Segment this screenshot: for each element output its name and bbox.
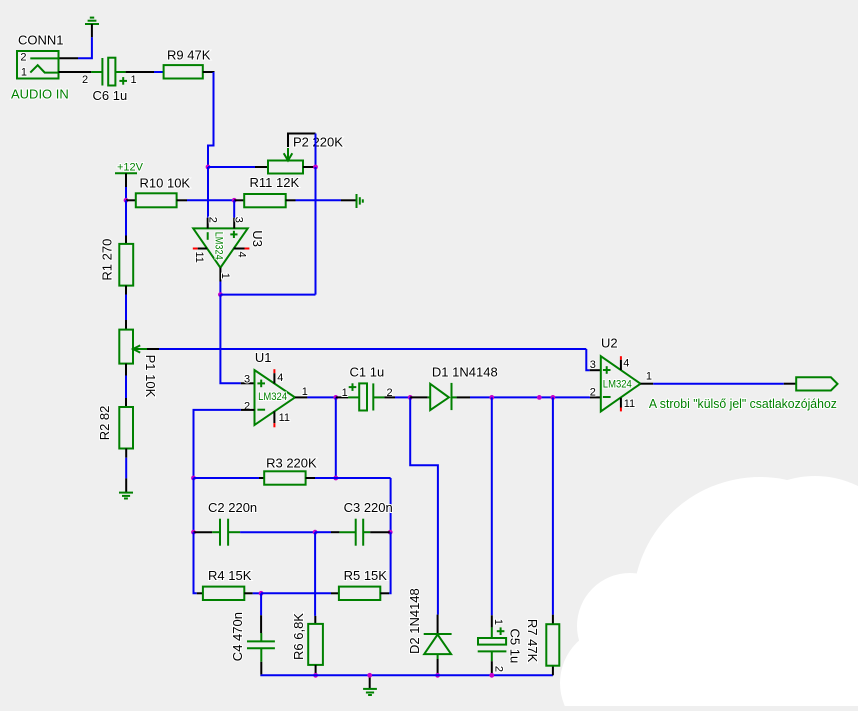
svg-text:R10 10K: R10 10K [140,176,191,191]
svg-text:U3: U3 [250,230,265,247]
svg-text:1: 1 [131,74,137,86]
svg-text:P2 220K: P2 220K [293,135,343,150]
svg-text:C4 470n: C4 470n [230,612,245,661]
node junction [333,476,338,481]
wire [125,187,127,200]
svg-text:2: 2 [82,74,88,86]
svg-text:C1 1u: C1 1u [350,365,385,380]
op-amp U3 [193,228,248,267]
svg-text:+12V: +12V [117,161,144,173]
wire [389,532,390,593]
node junction [551,395,556,400]
node junction [124,198,129,203]
wire [233,200,235,217]
port (external strobe output) [796,377,837,390]
wire [208,166,255,168]
svg-text:2: 2 [20,52,26,64]
svg-text:LM324: LM324 [258,391,287,403]
svg-text:1: 1 [342,387,348,399]
svg-text:2: 2 [493,666,505,672]
wire [335,397,337,478]
ground (bottom center) [369,675,371,688]
wire [384,396,395,398]
svg-text:D2 1N4148: D2 1N4148 [407,588,422,654]
wire [315,134,317,168]
ground (top, above CONN1) [85,23,99,25]
svg-text:AUDIO IN: AUDIO IN [11,87,69,102]
wire [203,71,215,73]
svg-text:3: 3 [233,217,245,223]
node junction [206,165,211,170]
svg-text:11: 11 [279,412,290,424]
svg-text:1: 1 [219,273,231,279]
node junction [313,673,318,678]
wire [410,397,438,614]
svg-text:R9 47K: R9 47K [167,47,211,62]
node junction [191,530,196,535]
svg-text:R5 15K: R5 15K [344,568,388,583]
wire [126,71,154,73]
svg-text:3: 3 [590,359,596,371]
svg-text:P1 10K: P1 10K [143,355,158,398]
node junction [489,673,494,678]
wire [78,37,92,58]
background blob [560,476,858,711]
svg-text:LM324: LM324 [212,232,224,260]
svg-text:C3 220n: C3 220n [344,500,393,515]
node junction [333,395,338,400]
wire [59,71,92,73]
wire [261,674,553,677]
svg-text:C6 1u: C6 1u [93,88,128,103]
node junction [313,530,318,535]
wire [241,409,255,411]
wire [125,200,127,235]
wire [193,532,195,593]
wire [147,348,159,350]
svg-text:C5 1u: C5 1u [508,629,523,664]
wire [307,396,335,398]
wire [653,383,784,385]
svg-text:U2: U2 [601,335,618,350]
svg-text:R6 6,8K: R6 6,8K [291,613,306,660]
wire [470,396,590,398]
node junction [367,673,372,678]
svg-text:R3 220K: R3 220K [266,456,317,471]
node junction [313,165,318,170]
svg-text:C2 220n: C2 220n [208,500,257,515]
svg-text:D1 1N4148: D1 1N4148 [432,365,498,380]
capacitor C6 [91,71,102,73]
wire [125,364,127,376]
svg-text:2: 2 [590,387,596,399]
svg-text:R4 15K: R4 15K [208,568,252,583]
svg-text:LM324: LM324 [603,379,632,391]
ground (right of R11) [356,194,358,208]
wire [207,167,209,218]
node junction [259,591,264,596]
svg-text:1: 1 [646,371,652,383]
svg-text:R7 47K: R7 47K [525,619,540,663]
wire [125,286,127,295]
wire [187,199,234,201]
svg-text:1: 1 [302,386,308,398]
wire [261,592,331,594]
svg-text:R11 12K: R11 12K [250,175,300,190]
svg-text:1: 1 [492,619,504,625]
node junction [537,395,542,400]
svg-text:A strobi "külső jel" csatlakoz: A strobi "külső jel" csatlakozójához [649,396,837,411]
wire [220,294,315,296]
wire [125,449,127,458]
svg-text:R1 270: R1 270 [100,239,115,281]
wire [315,167,317,295]
svg-text:4: 4 [277,372,283,384]
node junction [218,292,223,297]
svg-text:CONN1: CONN1 [18,33,64,48]
svg-text:R2 82: R2 82 [97,406,112,441]
svg-text:U1: U1 [255,350,272,365]
svg-text:11: 11 [193,252,205,263]
wire [193,478,195,532]
node junction [232,198,237,203]
node junction [408,395,413,400]
node junction [191,476,196,481]
wire [296,199,342,201]
node junction [489,395,494,400]
node junction [435,673,440,678]
svg-text:4: 4 [235,252,247,258]
node junction [388,530,393,535]
svg-text:4: 4 [623,358,629,370]
wire [315,477,391,479]
svg-text:11: 11 [624,398,635,410]
wire [240,531,315,533]
potentiometer P1 [119,330,133,364]
ground (below R2) [125,478,127,492]
svg-text:2: 2 [206,217,218,223]
svg-text:3: 3 [244,374,250,386]
wire [219,282,221,295]
svg-text:1: 1 [21,67,27,79]
wire [220,295,240,384]
wire [314,532,316,616]
